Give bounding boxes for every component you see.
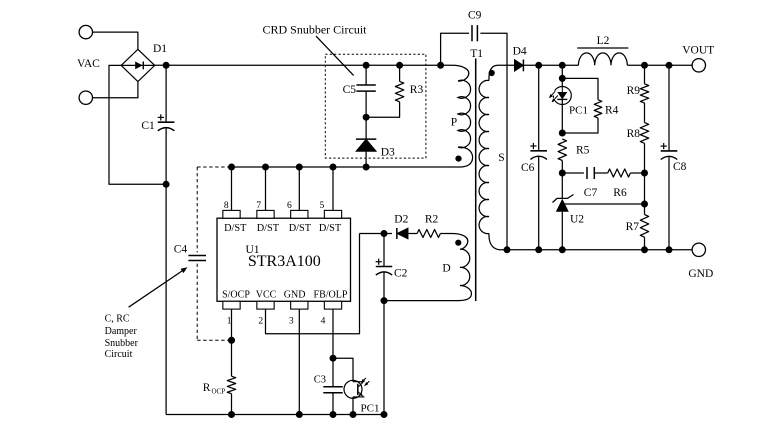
svg-text:8: 8 [224,201,229,211]
svg-text:R: R [203,382,211,394]
svg-text:Damper: Damper [105,326,138,337]
svg-text:PC1: PC1 [361,403,380,415]
svg-text:D4: D4 [513,46,527,58]
svg-text:D2: D2 [394,214,408,226]
svg-text:S: S [498,152,504,164]
svg-text:7: 7 [256,201,261,211]
svg-text:STR3A100: STR3A100 [248,253,321,270]
svg-text:FB/OLP: FB/OLP [314,290,348,301]
svg-text:D1: D1 [153,43,167,55]
svg-text:VCC: VCC [256,290,277,301]
svg-text:C5: C5 [343,84,357,96]
svg-text:CRD Snubber Circuit: CRD Snubber Circuit [263,23,368,37]
svg-text:R7: R7 [626,221,640,233]
svg-text:D/ST: D/ST [319,223,342,234]
svg-text:VAC: VAC [77,58,100,70]
svg-text:S/OCP: S/OCP [222,290,250,301]
svg-text:U2: U2 [570,214,584,226]
svg-text:Snubber: Snubber [105,338,139,349]
svg-text:C8: C8 [673,161,687,173]
svg-text:C1: C1 [141,120,155,132]
svg-text:C4: C4 [174,244,188,256]
svg-text:R4: R4 [605,105,619,117]
svg-text:C7: C7 [584,187,598,199]
svg-text:D/ST: D/ST [224,223,247,234]
svg-text:VOUT: VOUT [682,45,714,57]
svg-text:GND: GND [688,268,713,280]
svg-text:R2: R2 [425,214,439,226]
svg-text:D3: D3 [381,147,395,159]
svg-text:OCP: OCP [212,388,226,396]
svg-text:L2: L2 [597,35,610,47]
svg-text:D: D [442,263,450,275]
svg-text:C2: C2 [394,268,408,280]
svg-text:C, RC: C, RC [105,314,130,325]
svg-text:D/ST: D/ST [257,223,280,234]
svg-text:R9: R9 [627,85,641,97]
svg-text:T1: T1 [470,48,483,60]
svg-text:D/ST: D/ST [289,223,312,234]
svg-text:R8: R8 [627,128,641,140]
svg-text:Circuit: Circuit [105,349,133,360]
svg-text:R3: R3 [410,84,424,96]
svg-text:4: 4 [321,317,326,327]
svg-text:GND: GND [284,290,306,301]
svg-text:C6: C6 [521,162,535,174]
svg-text:6: 6 [287,201,292,211]
svg-text:R5: R5 [576,145,590,157]
svg-text:PC1: PC1 [569,105,588,117]
svg-text:5: 5 [320,201,325,211]
svg-text:C9: C9 [468,10,482,22]
svg-text:R6: R6 [613,187,627,199]
svg-text:2: 2 [258,317,263,327]
svg-text:1: 1 [227,317,232,327]
svg-text:C3: C3 [314,375,326,386]
svg-text:P: P [451,117,457,129]
svg-text:3: 3 [289,317,294,327]
